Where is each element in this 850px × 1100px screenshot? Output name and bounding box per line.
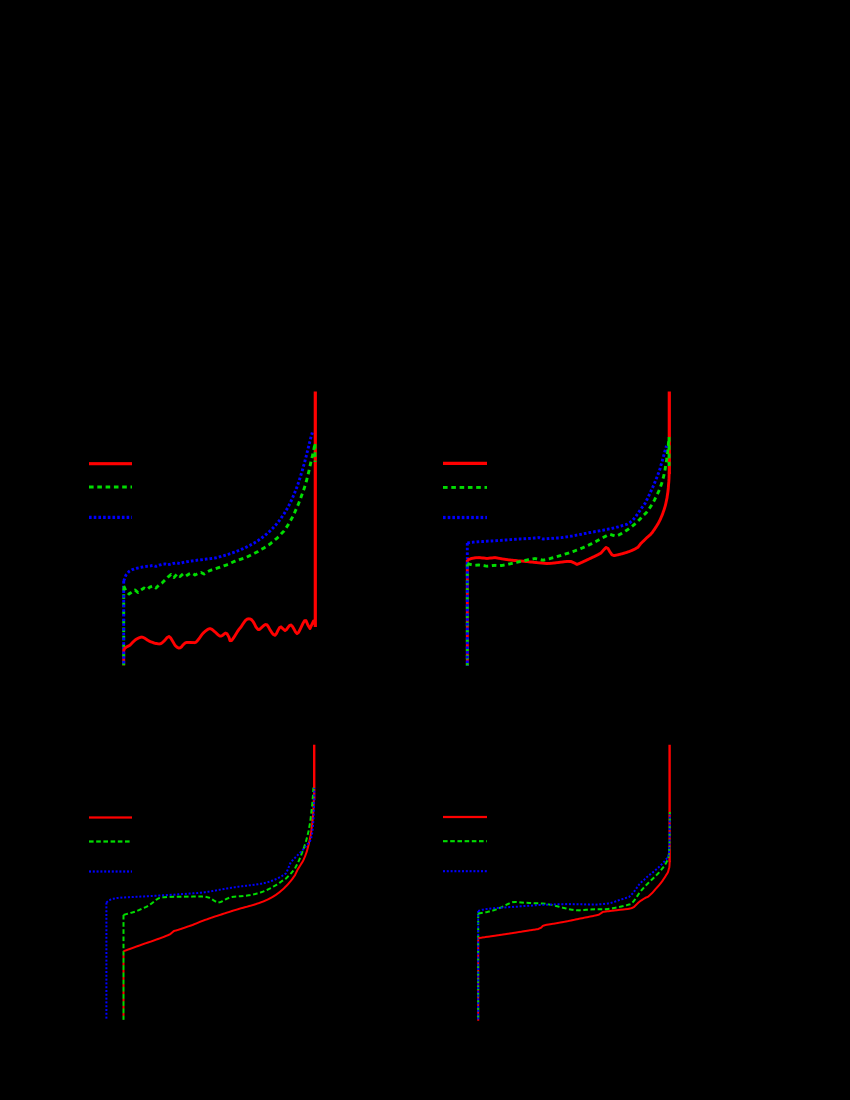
- legend BL green dashed: [89, 840, 132, 842]
- BL red curve: [124, 795, 315, 951]
- TL green on spike: [314, 444, 317, 462]
- BL green left vertical dashed: [123, 915, 125, 1020]
- legend TR red solid: [443, 462, 487, 465]
- TR left vertical red: [466, 560, 469, 666]
- BL green dashed curve: [124, 786, 314, 915]
- TR left vertical green dashed: [466, 564, 469, 666]
- BR red right spike: [668, 745, 670, 862]
- BR red curve: [478, 861, 670, 938]
- BR green dashed curve: [478, 812, 670, 914]
- legend BR green dashed: [443, 840, 487, 842]
- legend TL blue dotted: [89, 516, 132, 519]
- legend TL green dashed: [89, 486, 132, 489]
- BR blue dotted curve: [478, 814, 670, 911]
- TR red spike: [668, 392, 671, 475]
- TL left vertical red segment: [122, 648, 125, 666]
- TL left vertical green dashed: [122, 586, 125, 666]
- legend TL red solid: [89, 462, 132, 465]
- TL red noisy curve: [124, 619, 315, 650]
- legend BR blue dotted: [443, 870, 487, 872]
- TL red right spike: [314, 392, 317, 628]
- TL blue dotted curve: [124, 433, 313, 582]
- legend TR green dashed: [443, 486, 487, 489]
- TR blue dotted curve: [467, 446, 666, 543]
- BR red left vertical: [477, 938, 479, 1021]
- BL red left vertical: [123, 951, 125, 1019]
- legend TR blue dotted: [443, 516, 487, 519]
- BL red right spike: [313, 745, 315, 800]
- BR green left vertical dashed: [477, 914, 479, 1021]
- TR green on spike: [668, 437, 671, 466]
- TL green dashed curve: [124, 444, 315, 594]
- BR blue left vertical dotted: [477, 911, 479, 1021]
- BL blue dotted curve: [106, 788, 314, 903]
- BL blue left vertical dotted: [105, 903, 107, 1021]
- legend BR red solid: [443, 816, 487, 818]
- legend BL red solid: [89, 816, 132, 818]
- TL left vertical blue dotted: [122, 581, 125, 666]
- legend BL blue dotted: [89, 870, 132, 872]
- TR green dashed curve: [467, 439, 669, 566]
- TR left vertical blue dotted: [466, 543, 469, 666]
- TR red curve: [467, 472, 669, 564]
